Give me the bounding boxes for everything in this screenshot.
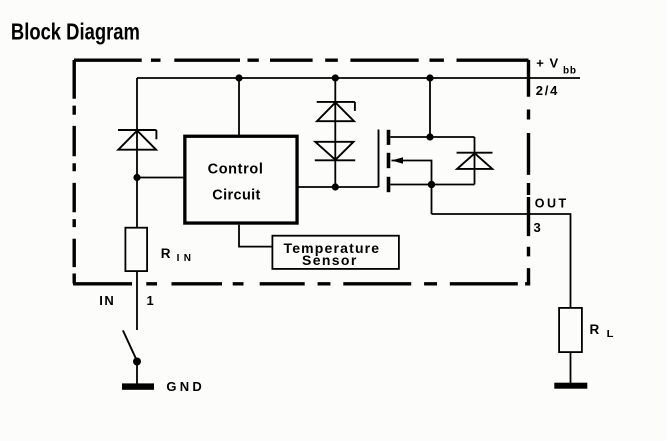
- wire: MOSFET source horizontal: [390, 184, 474, 186]
- resistor R_L: [559, 308, 582, 352]
- diode (gate clamp, lower of middle pair): [315, 142, 355, 161]
- svg-text:Circuit: Circuit: [212, 187, 260, 203]
- wire: OUT line to pin 3 and load: [432, 214, 571, 308]
- ground symbol (load side): [554, 383, 587, 389]
- svg-text:IN: IN: [177, 253, 191, 264]
- node: input junction: [133, 174, 140, 181]
- svg-text:OUT: OUT: [535, 196, 567, 210]
- zener diode (input clamp, left): [118, 130, 156, 150]
- svg-text:1: 1: [147, 293, 154, 308]
- wire: MOSFET bulk arrow wire to source node: [392, 161, 432, 215]
- zener diode (gate clamp, upper of middle pair): [317, 102, 355, 121]
- node: source junction: [428, 181, 435, 188]
- switch blade (input switch): [123, 330, 137, 361]
- svg-text:bb: bb: [563, 66, 576, 77]
- wire: body diode branch vertical: [474, 137, 476, 185]
- ground symbol (input side): [122, 383, 154, 389]
- body diode of MOSFET: [457, 153, 493, 169]
- wire: left input branch vertical (through zener and R_IN): [136, 78, 138, 330]
- node: rail / drain drop: [426, 74, 433, 81]
- wire: drop from rail to MOSFET drain: [429, 78, 431, 137]
- IC boundary (dashed) left side: [72, 60, 75, 284]
- switch pivot dot: [133, 358, 141, 366]
- wire: control circuit bottom to temperature sensor: [239, 225, 272, 247]
- temperature sensor box: [272, 236, 399, 269]
- IC boundary (dashed) bottom side: [73, 282, 530, 285]
- wire: MOSFET drain horizontal: [390, 136, 474, 138]
- wire: input node to control circuit left: [137, 177, 184, 179]
- svg-text:Control: Control: [208, 162, 263, 178]
- wire: drop from rail to control circuit top: [238, 78, 240, 136]
- svg-text:L: L: [607, 329, 614, 340]
- node: gate clamp junction: [332, 183, 339, 190]
- resistor R_IN: [125, 228, 147, 271]
- node: rail / clamp string: [332, 74, 339, 81]
- svg-text:IN: IN: [99, 293, 115, 308]
- wire: R_L bottom to ground: [570, 353, 572, 384]
- svg-text:3: 3: [534, 220, 541, 235]
- svg-text:Sensor: Sensor: [302, 252, 357, 268]
- svg-text:Block Diagram: Block Diagram: [11, 18, 140, 44]
- MOSFET Q1 gate line: [378, 130, 380, 188]
- svg-text:+ V: + V: [536, 56, 558, 71]
- svg-text:R: R: [590, 322, 600, 337]
- MOSFET Q1 bulk arrow: [392, 157, 404, 164]
- svg-text:2/4: 2/4: [536, 83, 558, 98]
- IC boundary (dashed) right side: [527, 60, 530, 284]
- wire: clamp diode string vertical: [334, 78, 336, 187]
- MOSFET Q1 channel bars: [387, 130, 391, 145]
- wire: control circuit right to MOSFET gate: [298, 186, 379, 188]
- node: rail / control drop: [235, 74, 242, 81]
- wire: +Vbb top rail: [137, 77, 580, 79]
- IC boundary (dashed) top side: [74, 59, 529, 62]
- svg-text:R: R: [161, 246, 171, 261]
- node: drain junction: [426, 133, 433, 140]
- svg-text:GND: GND: [166, 379, 201, 394]
- wire: switch to ground: [136, 362, 138, 384]
- control circuit box U1: [185, 136, 297, 223]
